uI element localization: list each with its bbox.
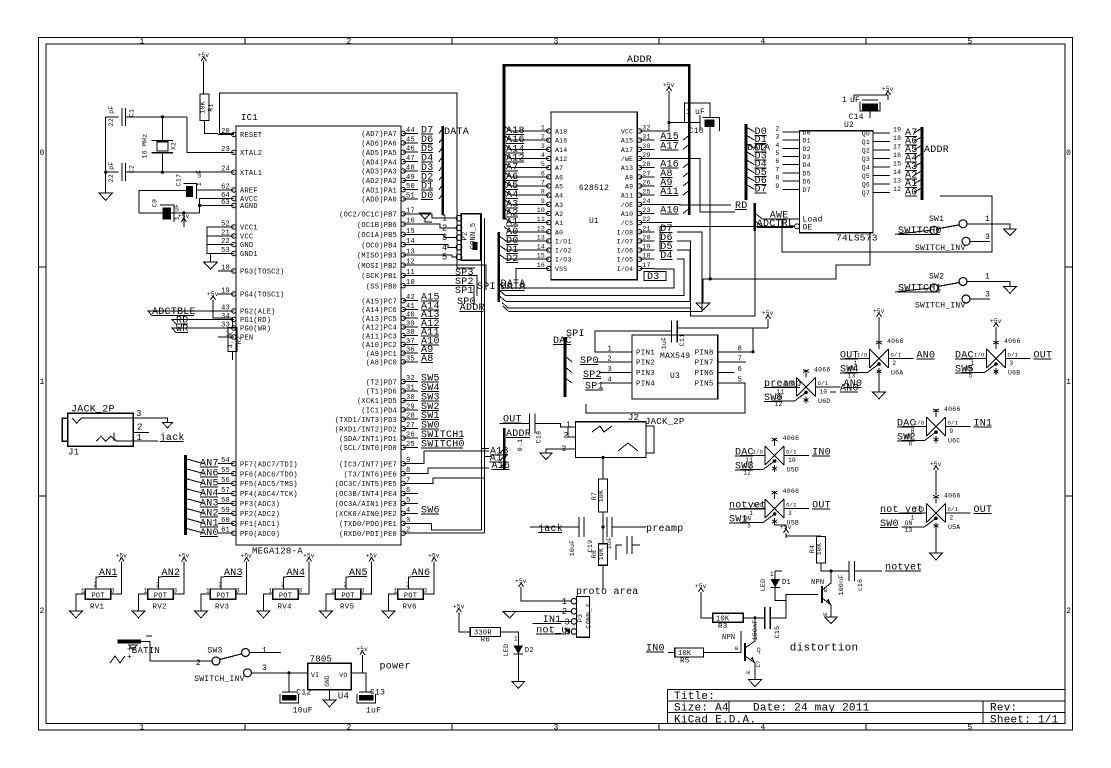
svg-text:RESET: RESET bbox=[240, 132, 262, 140]
capacitor C10 1uF bbox=[699, 115, 701, 130]
capacitor c16 100nF bbox=[848, 561, 850, 581]
svg-text:C?: C? bbox=[755, 660, 762, 667]
svg-text:O/I: O/I bbox=[818, 380, 829, 387]
wire U5A rails bbox=[935, 475, 937, 495]
svg-text:50: 50 bbox=[406, 183, 415, 191]
wire u2 oe route bbox=[660, 225, 783, 227]
capacitor near R8 bbox=[626, 536, 628, 554]
wire u1 data out nest bbox=[503, 232, 702, 312]
capacitor C14 1uF bbox=[862, 99, 878, 101]
svg-text:IC1: IC1 bbox=[241, 113, 258, 123]
capacitor C15 100nF bbox=[764, 607, 766, 629]
svg-text:I/O: I/O bbox=[974, 352, 985, 359]
svg-text:2: 2 bbox=[346, 38, 351, 47]
analog switch U6D 4066 bbox=[797, 378, 816, 397]
power +5V at R1 bbox=[203, 61, 205, 66]
svg-text:Q: Q bbox=[757, 647, 761, 654]
svg-text:jack: jack bbox=[538, 523, 563, 535]
svg-text:A13: A13 bbox=[621, 165, 633, 172]
svg-text:SW0: SW0 bbox=[880, 519, 899, 530]
svg-text:SW3: SW3 bbox=[207, 647, 222, 656]
svg-text:3: 3 bbox=[174, 588, 178, 595]
svg-text:A10: A10 bbox=[660, 205, 679, 216]
svg-text:PIN6: PIN6 bbox=[695, 370, 714, 378]
svg-text:GND: GND bbox=[324, 675, 331, 687]
svg-text:ADDR: ADDR bbox=[627, 55, 652, 66]
svg-text:(A11)PC3: (A11)PC3 bbox=[361, 333, 397, 341]
wire r8 bottom bbox=[602, 565, 604, 590]
svg-text:9: 9 bbox=[406, 457, 410, 465]
bus DATA at U1 bbox=[498, 232, 501, 302]
svg-text:3: 3 bbox=[553, 38, 558, 47]
svg-text:I/O8: I/O8 bbox=[617, 229, 634, 236]
wire r3 left bbox=[701, 597, 713, 618]
svg-text:4: 4 bbox=[775, 142, 779, 149]
wire xtal2 bbox=[187, 117, 218, 152]
svg-text:+5v: +5v bbox=[366, 553, 378, 560]
svg-text:(AD6)PA6: (AD6)PA6 bbox=[361, 141, 397, 149]
power +5v at R3 bbox=[700, 592, 702, 597]
wire d1 top bbox=[775, 570, 782, 572]
svg-text:28: 28 bbox=[406, 413, 415, 421]
svg-text:10: 10 bbox=[820, 389, 828, 396]
svg-text:+5v: +5v bbox=[663, 82, 675, 89]
svg-text:10K: 10K bbox=[598, 490, 605, 502]
ground below C10 bbox=[696, 303, 710, 310]
ground below mcu supplies bbox=[204, 262, 218, 269]
svg-text:63: 63 bbox=[221, 199, 230, 207]
power +5v at R2 bbox=[212, 300, 214, 305]
svg-text:4066: 4066 bbox=[814, 367, 831, 374]
svg-text:D7: D7 bbox=[803, 187, 811, 194]
power +5v RV5 bbox=[371, 562, 373, 567]
svg-text:13: 13 bbox=[905, 527, 913, 534]
svg-text:A11: A11 bbox=[621, 193, 633, 200]
svg-text:1: 1 bbox=[770, 571, 774, 578]
svg-text:U6D: U6D bbox=[818, 398, 830, 405]
dac U3 pin 4 bbox=[615, 382, 632, 384]
wire j2 pin3 ground bbox=[546, 449, 564, 453]
wire j2 bottom bbox=[564, 448, 576, 450]
switch SW1 inv bbox=[962, 237, 970, 245]
svg-text:(SS)PB0: (SS)PB0 bbox=[366, 283, 397, 291]
svg-text:C1: C1 bbox=[129, 109, 136, 117]
svg-text:6: 6 bbox=[738, 366, 742, 374]
svg-text:+5v: +5v bbox=[515, 578, 527, 585]
svg-text:not_u: not_u bbox=[536, 625, 567, 636]
svg-text:10K: 10K bbox=[816, 543, 823, 555]
wires RV5 bbox=[326, 594, 335, 611]
svg-text:16 MHz: 16 MHz bbox=[142, 134, 149, 159]
battery BATIN bbox=[118, 640, 142, 644]
svg-text:Date: 24 may 2011: Date: 24 may 2011 bbox=[753, 703, 870, 715]
svg-text:D0: D0 bbox=[421, 191, 434, 202]
ground at P3 bbox=[503, 611, 516, 618]
svg-text:DAC: DAC bbox=[897, 419, 916, 430]
bus SPI at U3 bbox=[564, 337, 567, 397]
svg-text:10K: 10K bbox=[598, 548, 605, 560]
wire d1 to q2 base bbox=[786, 595, 818, 601]
wire r6 left bbox=[459, 617, 470, 632]
svg-text:+5v: +5v bbox=[762, 310, 774, 317]
analog switch U6A 4066 bbox=[870, 349, 889, 368]
svg-text:P2: P2 bbox=[462, 232, 470, 241]
svg-text:18: 18 bbox=[893, 135, 901, 142]
svg-text:OUT: OUT bbox=[974, 505, 993, 516]
svg-text:(OC3B/INT4)PE4: (OC3B/INT4)PE4 bbox=[335, 491, 397, 499]
svg-text:ADCTRL: ADCTRL bbox=[757, 219, 795, 230]
svg-text:4: 4 bbox=[760, 38, 765, 47]
svg-text:55: 55 bbox=[221, 467, 230, 475]
svg-text:1 uF: 1 uF bbox=[196, 170, 203, 187]
svg-text:C17: C17 bbox=[176, 174, 183, 186]
svg-text:49: 49 bbox=[406, 174, 415, 182]
latch U2 74LS573 body bbox=[800, 131, 874, 233]
bus DATA at U2 bbox=[745, 124, 748, 200]
svg-text:13: 13 bbox=[406, 248, 415, 256]
svg-text:10uF: 10uF bbox=[569, 540, 576, 557]
wire c9 row bbox=[139, 212, 163, 214]
svg-text:LED: LED bbox=[503, 644, 510, 656]
svg-text:IN1: IN1 bbox=[974, 419, 993, 430]
svg-text:AGND: AGND bbox=[240, 203, 258, 211]
svg-text:1uF: 1uF bbox=[366, 707, 381, 716]
svg-text:4066: 4066 bbox=[887, 338, 904, 345]
svg-text:SWITCH0: SWITCH0 bbox=[421, 440, 465, 451]
svg-text:AN2: AN2 bbox=[162, 568, 181, 579]
capacitor C2 22pF bbox=[121, 163, 123, 181]
svg-text:25: 25 bbox=[642, 189, 650, 196]
svg-text:+5v: +5v bbox=[207, 291, 219, 298]
transistor Q1 NPN bbox=[744, 643, 746, 661]
svg-text:GND: GND bbox=[240, 242, 253, 250]
svg-text:34: 34 bbox=[221, 313, 230, 321]
svg-text:distortion: distortion bbox=[790, 643, 859, 655]
svg-text:4: 4 bbox=[541, 152, 545, 159]
wire aref bbox=[197, 189, 219, 191]
svg-text:32: 32 bbox=[642, 125, 650, 132]
wire p3 pin1 bbox=[521, 592, 571, 601]
svg-text:16: 16 bbox=[406, 218, 415, 226]
svg-text:2: 2 bbox=[893, 360, 897, 367]
svg-text:3: 3 bbox=[788, 510, 792, 517]
analog switch U5B 4066 bbox=[765, 499, 784, 518]
title block bbox=[668, 689, 1066, 691]
svg-text:3: 3 bbox=[985, 233, 990, 242]
wire U6A rails bbox=[878, 322, 880, 341]
svg-text:3: 3 bbox=[541, 143, 545, 150]
svg-text:VCC1: VCC1 bbox=[240, 225, 258, 233]
svg-text:B: B bbox=[735, 645, 739, 652]
svg-text:(AD3)PA3: (AD3)PA3 bbox=[361, 169, 397, 177]
wire r5 to q1 bbox=[704, 651, 742, 653]
svg-text:C9: C9 bbox=[152, 199, 159, 207]
wires RV3 bbox=[201, 594, 210, 611]
svg-text:A2: A2 bbox=[555, 211, 563, 218]
svg-text:XTAL2: XTAL2 bbox=[240, 150, 262, 158]
svg-text:53: 53 bbox=[221, 247, 230, 255]
svg-text:10: 10 bbox=[537, 207, 545, 214]
svg-text:(A13)PC5: (A13)PC5 bbox=[361, 316, 397, 324]
svg-text:1: 1 bbox=[686, 108, 691, 117]
svg-text:4066: 4066 bbox=[944, 406, 961, 413]
svg-text:2: 2 bbox=[950, 514, 954, 521]
svg-text:DAC: DAC bbox=[553, 336, 572, 347]
svg-text:OUT: OUT bbox=[1034, 351, 1053, 362]
svg-text:D4: D4 bbox=[803, 162, 811, 169]
svg-text:12: 12 bbox=[406, 259, 415, 267]
power +5v RV4 bbox=[308, 562, 310, 567]
wire u3 pin5 bbox=[586, 383, 745, 413]
svg-text:3: 3 bbox=[424, 588, 428, 595]
svg-text:PF4(ADC4/TCK): PF4(ADC4/TCK) bbox=[240, 491, 298, 499]
bus ADDR at U2 bbox=[921, 127, 924, 200]
svg-text:+5v: +5v bbox=[356, 646, 368, 653]
svg-text:11: 11 bbox=[537, 216, 545, 223]
svg-text:VCC: VCC bbox=[240, 234, 253, 242]
dac U3 MAX549 body bbox=[632, 335, 718, 399]
svg-text:(SCK)PB1: (SCK)PB1 bbox=[361, 273, 397, 281]
svg-text:2: 2 bbox=[137, 423, 143, 433]
svg-text:14: 14 bbox=[537, 244, 545, 251]
svg-text:PG3(TOSC2): PG3(TOSC2) bbox=[240, 269, 285, 277]
svg-text:Q6: Q6 bbox=[862, 182, 870, 189]
wire c18 to j2 bbox=[535, 424, 568, 427]
svg-text:15: 15 bbox=[406, 228, 415, 236]
svg-text:I/O: I/O bbox=[752, 449, 763, 456]
svg-text:D2: D2 bbox=[525, 647, 534, 655]
svg-text:POT: POT bbox=[216, 592, 229, 600]
svg-text:D3: D3 bbox=[647, 272, 660, 283]
svg-text:1: 1 bbox=[81, 588, 85, 595]
potentiometer RV5 bbox=[335, 589, 360, 599]
svg-text:52: 52 bbox=[221, 221, 230, 229]
svg-text:(OC2/OC1C)PB7: (OC2/OC1C)PB7 bbox=[339, 212, 397, 220]
svg-text:9: 9 bbox=[950, 428, 954, 435]
svg-text:(XCK0/AIN0)PE2: (XCK0/AIN0)PE2 bbox=[335, 511, 397, 519]
connector P2 CONN_5 bbox=[461, 214, 481, 261]
svg-text:6: 6 bbox=[775, 158, 779, 165]
svg-text:ADDR: ADDR bbox=[460, 303, 485, 314]
wire R1 to +5V bbox=[203, 66, 205, 94]
svg-text:4.7K: 4.7K bbox=[228, 332, 235, 349]
svg-text:35: 35 bbox=[406, 355, 415, 363]
svg-text:C12: C12 bbox=[296, 689, 311, 698]
wire u3 pin7 bbox=[735, 361, 746, 363]
analog switch U5D 4066 bbox=[765, 446, 784, 465]
svg-text:Q4: Q4 bbox=[862, 165, 870, 172]
svg-text:PF7(ADC7/TDI): PF7(ADC7/TDI) bbox=[240, 461, 298, 469]
dac U3 pin 8 bbox=[718, 351, 735, 353]
crystal X2 16MHz bbox=[152, 140, 174, 142]
svg-text:power: power bbox=[380, 662, 411, 673]
svg-text:26: 26 bbox=[642, 179, 650, 186]
svg-text:IN0: IN0 bbox=[812, 448, 831, 459]
svg-text:I/O4: I/O4 bbox=[617, 266, 634, 273]
svg-text:3: 3 bbox=[299, 588, 303, 595]
svg-text:SP0: SP0 bbox=[580, 356, 599, 367]
svg-text:1: 1 bbox=[514, 636, 518, 643]
svg-text:(OC3A/AIN1)PE3: (OC3A/AIN1)PE3 bbox=[335, 501, 397, 509]
svg-text:D7: D7 bbox=[755, 184, 768, 195]
wire out to c18 bbox=[500, 423, 529, 425]
svg-text:PIN8: PIN8 bbox=[695, 349, 714, 357]
svg-text:26: 26 bbox=[406, 432, 415, 440]
svg-text:Q3: Q3 bbox=[862, 156, 870, 163]
svg-text:D3: D3 bbox=[803, 154, 811, 161]
svg-text:(TXD1/INT3)PD3: (TXD1/INT3)PD3 bbox=[335, 417, 397, 425]
svg-text:17: 17 bbox=[893, 144, 901, 151]
svg-text:28: 28 bbox=[642, 161, 650, 168]
power +5v at P3 bbox=[520, 587, 522, 592]
svg-text:D2: D2 bbox=[803, 146, 811, 153]
svg-text:R8: R8 bbox=[591, 550, 598, 558]
svg-text:7: 7 bbox=[541, 179, 545, 186]
wire q2 collector to c16 bbox=[831, 570, 849, 572]
svg-text:PIN3: PIN3 bbox=[636, 370, 655, 378]
wire R1 to reset node bbox=[205, 121, 219, 134]
svg-text:51: 51 bbox=[406, 193, 415, 201]
ground RV4 bbox=[257, 611, 270, 618]
ground SW1 bbox=[1004, 229, 1017, 236]
svg-text:0: 0 bbox=[1066, 149, 1071, 158]
svg-text:8: 8 bbox=[541, 189, 545, 196]
svg-text:notyet: notyet bbox=[885, 563, 923, 574]
svg-text:4066: 4066 bbox=[783, 488, 800, 495]
svg-text:SWITCH_INV: SWITCH_INV bbox=[194, 675, 245, 684]
svg-text:10: 10 bbox=[406, 279, 415, 287]
svg-text:Q2: Q2 bbox=[862, 148, 870, 155]
svg-text:14: 14 bbox=[893, 169, 901, 176]
potentiometer RV2 bbox=[148, 589, 173, 599]
mcu IC1 right pins port D bbox=[403, 381, 418, 383]
svg-text:13: 13 bbox=[537, 234, 545, 241]
mcu IC1 MEGA128-A body bbox=[236, 126, 401, 545]
analog switch U6B 4066 bbox=[987, 349, 1006, 368]
svg-text:4066: 4066 bbox=[944, 492, 961, 499]
regulator U4 7805 bbox=[308, 663, 351, 690]
svg-text:11: 11 bbox=[406, 269, 415, 277]
svg-text:12: 12 bbox=[893, 186, 901, 193]
power +5v RV6 bbox=[433, 562, 435, 567]
svg-text:SPI: SPI bbox=[477, 282, 496, 293]
ground SW2 bbox=[1004, 287, 1017, 294]
mcu IC1 right pins port C bbox=[403, 300, 418, 302]
svg-text:GND1: GND1 bbox=[240, 251, 258, 259]
svg-text:16: 16 bbox=[537, 262, 545, 269]
svg-text:C11: C11 bbox=[679, 334, 686, 346]
svg-text:19: 19 bbox=[642, 244, 650, 251]
svg-text:SP1: SP1 bbox=[455, 286, 474, 297]
svg-text:41: 41 bbox=[406, 303, 415, 311]
switch SW2 inv bbox=[962, 295, 970, 303]
svg-text:P3: P3 bbox=[577, 614, 584, 622]
svg-text:KiCad E.D.A.: KiCad E.D.A. bbox=[674, 714, 756, 726]
svg-text:1: 1 bbox=[842, 96, 847, 105]
svg-text:(OC0)PB4: (OC0)PB4 bbox=[361, 242, 397, 250]
svg-text:(OC1A)PB5: (OC1A)PB5 bbox=[357, 232, 397, 240]
svg-text:PG4(TOSC1): PG4(TOSC1) bbox=[240, 292, 285, 300]
svg-text:20: 20 bbox=[221, 128, 230, 136]
svg-text:48: 48 bbox=[406, 165, 415, 173]
svg-text:RV1: RV1 bbox=[90, 604, 105, 612]
svg-text:E: E bbox=[745, 670, 752, 674]
svg-text:RV4: RV4 bbox=[278, 604, 293, 612]
svg-text:preamp: preamp bbox=[646, 524, 684, 535]
svg-text:AN5: AN5 bbox=[349, 568, 368, 579]
svg-text:I/O7: I/O7 bbox=[617, 238, 634, 245]
svg-text:31: 31 bbox=[642, 134, 650, 141]
svg-text:4: 4 bbox=[760, 724, 765, 733]
svg-text:24: 24 bbox=[221, 166, 230, 174]
svg-text:3: 3 bbox=[775, 134, 779, 141]
svg-text:POT: POT bbox=[91, 592, 104, 600]
svg-text:PF3(ADC3): PF3(ADC3) bbox=[240, 501, 280, 509]
svg-text:+5v: +5v bbox=[882, 86, 894, 93]
svg-text:SW2: SW2 bbox=[897, 433, 916, 444]
wires RV2 bbox=[139, 594, 148, 611]
wires RV6 bbox=[389, 594, 398, 611]
svg-text:+5v: +5v bbox=[873, 308, 885, 315]
svg-text:PG0(WR): PG0(WR) bbox=[240, 326, 271, 334]
wire q1 base cap c15b bbox=[740, 631, 742, 652]
svg-text:C13: C13 bbox=[370, 689, 385, 698]
svg-text:U2: U2 bbox=[844, 121, 854, 130]
svg-text:AN6: AN6 bbox=[412, 568, 431, 579]
svg-text:36: 36 bbox=[406, 347, 415, 355]
wire r3 to c15 bbox=[743, 617, 765, 619]
svg-text:6: 6 bbox=[406, 487, 410, 495]
svg-text:NPN: NPN bbox=[722, 634, 735, 642]
capacitor C12 10uF bbox=[282, 691, 297, 693]
svg-text:+5v: +5v bbox=[695, 583, 707, 590]
svg-text:A18: A18 bbox=[555, 129, 567, 136]
svg-text:U6A: U6A bbox=[891, 370, 903, 377]
svg-text:30: 30 bbox=[406, 394, 415, 402]
svg-text:25: 25 bbox=[406, 441, 415, 449]
svg-text:SW1: SW1 bbox=[729, 515, 748, 526]
capacitor C13 1uF bbox=[359, 691, 374, 693]
svg-text:1: 1 bbox=[566, 421, 571, 430]
svg-text:23: 23 bbox=[221, 146, 230, 154]
svg-text:A9: A9 bbox=[625, 183, 633, 190]
wire avcc agnd bbox=[200, 199, 219, 213]
svg-text:A8: A8 bbox=[421, 354, 434, 365]
svg-text:74LS573: 74LS573 bbox=[836, 233, 878, 244]
wire c10 down to ground bbox=[709, 127, 711, 279]
bus ADDR at J2 bbox=[503, 428, 506, 470]
potentiometer RV4 bbox=[273, 589, 298, 599]
svg-text:1: 1 bbox=[269, 588, 273, 595]
svg-text:37: 37 bbox=[406, 338, 415, 346]
svg-text:15: 15 bbox=[537, 253, 545, 260]
svg-text:5: 5 bbox=[406, 497, 410, 505]
svg-text:B: B bbox=[824, 587, 828, 594]
svg-text:DATA: DATA bbox=[501, 282, 526, 293]
wire reset net bbox=[219, 133, 234, 135]
svg-text:(OC3C/INT5)PE5: (OC3C/INT5)PE5 bbox=[335, 481, 397, 489]
svg-text:D0: D0 bbox=[803, 129, 811, 136]
resistor R4 10K bbox=[816, 537, 825, 563]
svg-text:SW4: SW4 bbox=[840, 365, 859, 376]
svg-text:BATIN: BATIN bbox=[132, 646, 160, 656]
svg-text:Q1: Q1 bbox=[862, 139, 870, 146]
svg-text:54: 54 bbox=[221, 457, 230, 465]
svg-text:14: 14 bbox=[406, 238, 415, 246]
wire c17 left bbox=[139, 191, 186, 213]
svg-text:15: 15 bbox=[893, 161, 901, 168]
svg-text:WR: WR bbox=[176, 324, 189, 335]
